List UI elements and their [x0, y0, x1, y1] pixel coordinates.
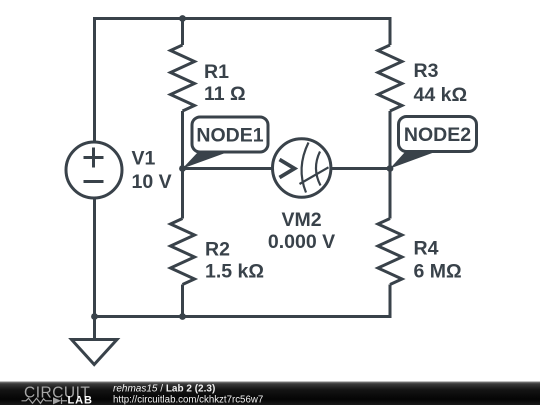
svg-text:NODE2: NODE2	[404, 124, 471, 146]
svg-text:V1: V1	[132, 148, 156, 170]
svg-text:11 Ω: 11 Ω	[204, 83, 246, 105]
resistor R2	[171, 219, 195, 285]
junction R2 bottom	[179, 313, 186, 320]
logo resistor-diode symbol	[22, 398, 68, 405]
footer bar	[0, 382, 540, 405]
resistor R4	[378, 219, 402, 285]
voltmeter VM2	[273, 139, 331, 197]
svg-text:R3: R3	[414, 60, 439, 82]
voltage source V1	[66, 142, 122, 198]
node A junction	[179, 165, 186, 172]
resistor R3	[378, 45, 402, 111]
node NODE1 flag	[183, 117, 269, 169]
svg-text:44 kΩ: 44 kΩ	[414, 84, 468, 106]
wire bottom rail	[95, 285, 391, 317]
junction top of R1	[179, 15, 186, 22]
wire R1 to node A	[181, 111, 184, 219]
wire R4 bottom lead	[389, 285, 392, 317]
wire top rail	[95, 19, 391, 143]
svg-text:rehmas15 / Lab 2 (2.3): rehmas15 / Lab 2 (2.3)	[113, 384, 215, 395]
node NODE2 flag	[390, 117, 477, 169]
resistor R1	[171, 45, 195, 111]
wire R3 to node B	[389, 111, 392, 219]
ground	[93, 317, 96, 340]
node B junction	[387, 165, 394, 172]
svg-text:VM2: VM2	[281, 209, 321, 231]
junction ground	[91, 313, 98, 320]
wire V1 bottom to ground rail	[93, 198, 96, 317]
svg-text:1.5 kΩ: 1.5 kΩ	[205, 261, 264, 283]
svg-text:10 V: 10 V	[132, 171, 172, 193]
wire voltmeter to node B	[331, 167, 390, 170]
wire R1 top lead	[181, 19, 184, 46]
svg-text:R2: R2	[205, 239, 230, 261]
wire node A to voltmeter	[183, 167, 273, 170]
wire R2 bottom lead	[181, 285, 184, 317]
svg-text:6 MΩ: 6 MΩ	[414, 261, 462, 283]
svg-text:0.000 V: 0.000 V	[268, 231, 335, 253]
svg-text:http://circuitlab.com/ckhkzt7r: http://circuitlab.com/ckhkzt7rc56w7	[113, 395, 263, 405]
svg-text:LAB: LAB	[68, 395, 93, 405]
svg-text:NODE1: NODE1	[196, 125, 263, 147]
svg-text:R1: R1	[204, 61, 229, 83]
svg-text:R4: R4	[414, 238, 439, 260]
